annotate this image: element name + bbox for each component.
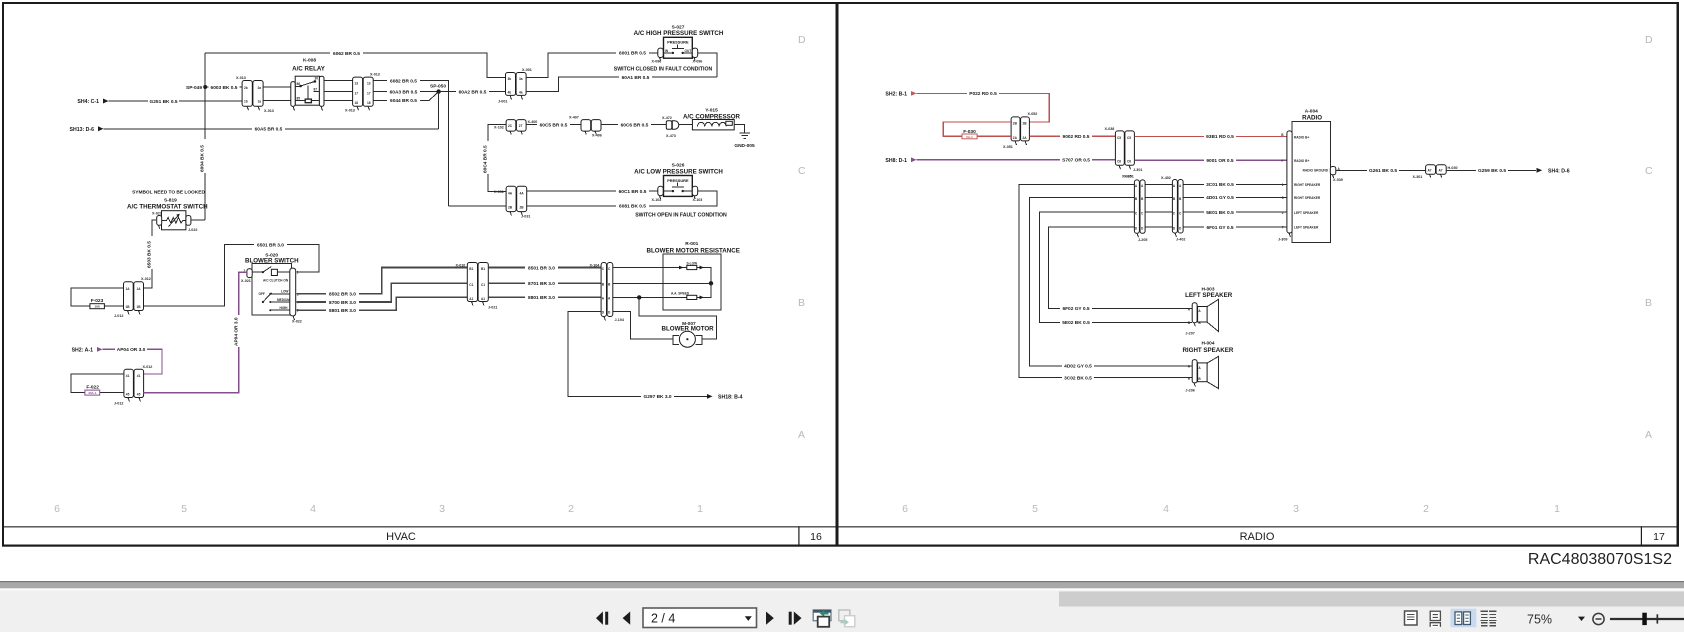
node SH13: D-6: [69, 126, 103, 133]
wire G251 BK 0.5: [109, 98, 243, 104]
svg-text:3a: 3a: [519, 77, 523, 81]
page 17 right border: [1677, 2, 1680, 547]
svg-text:G261 BK 0.5: G261 BK 0.5: [1369, 168, 1397, 174]
svg-text:A/C CLUTCH ON: A/C CLUTCH ON: [263, 279, 289, 283]
next page button: [766, 612, 774, 625]
wire thermostat to SP-049 drop: [191, 219, 206, 221]
svg-text:G297 BK 3.0: G297 BK 3.0: [644, 394, 672, 400]
wire X-013 to relay pin 85: [263, 100, 292, 102]
svg-text:2A: 2A: [1013, 136, 1018, 140]
svg-text:2B: 2B: [1013, 121, 1018, 125]
svg-text:SH4: C-1: SH4: C-1: [77, 99, 99, 105]
svg-text:F-023: F-023: [91, 298, 104, 304]
A/C compressor Y-015: [679, 108, 741, 130]
title bar line: [2, 526, 1679, 527]
svg-text:2: 2: [1423, 503, 1429, 515]
svg-text:60C5 BR 0.5: 60C5 BR 0.5: [540, 122, 568, 128]
secondary scrollbar segment: [1059, 592, 1684, 607]
svg-text:2A: 2A: [1023, 136, 1028, 140]
page number box 2 / 4: [643, 608, 757, 628]
svg-text:J-012: J-012: [114, 402, 123, 406]
A/C high pressure switch S-027: [634, 24, 724, 63]
svg-text:RIGHT SPEAKER: RIGHT SPEAKER: [1182, 347, 1233, 354]
wire X-402 to X-205 row C: [1145, 211, 1172, 213]
wire X-402 to X-205 row A: [1145, 183, 1172, 185]
svg-text:A/C RELAY: A/C RELAY: [292, 66, 326, 73]
wire 3C02 BK 0.5 to right speaker: [1019, 184, 1192, 381]
svg-text:17: 17: [1653, 531, 1665, 543]
junction SP-049: [186, 85, 207, 91]
wire relay 30 out: [324, 80, 353, 82]
ground GND-005: [734, 133, 755, 149]
wire 6003 BK 0.5: [207, 84, 242, 90]
junction SP-050: [430, 83, 446, 94]
svg-text:5E02 BK 0.5: 5E02 BK 0.5: [1062, 320, 1090, 326]
svg-text:60C4 BR 0.5: 60C4 BR 0.5: [482, 145, 488, 173]
svg-text:J-301: J-301: [1133, 168, 1142, 172]
svg-text:SH18: B-4: SH18: B-4: [718, 395, 743, 401]
svg-text:4A: 4A: [520, 192, 525, 196]
svg-text:2C: 2C: [508, 124, 513, 128]
svg-text:LEFT SPEAKER: LEFT SPEAKER: [1185, 292, 1233, 299]
svg-text:6062 BR 0.5: 6062 BR 0.5: [333, 51, 360, 57]
svg-text:X-104: X-104: [590, 264, 601, 268]
svg-text:RADIO B+: RADIO B+: [1294, 136, 1309, 140]
page 16 left border: [2, 2, 4, 547]
svg-text:2B: 2B: [508, 206, 513, 210]
svg-text:X-012: X-012: [141, 277, 151, 281]
svg-text:41: 41: [137, 374, 141, 378]
svg-text:X-051: X-051: [1003, 145, 1013, 149]
last page button: [789, 612, 802, 625]
svg-text:J-402: J-402: [1176, 238, 1185, 242]
svg-text:RAC48038070S1S2: RAC48038070S1S2: [1528, 551, 1672, 568]
svg-text:17: 17: [355, 92, 359, 96]
svg-text:G251 BK 0.5: G251 BK 0.5: [150, 99, 178, 105]
wire 4D02 GY 0.5 to right speaker: [1030, 197, 1193, 369]
svg-text:2B: 2B: [1023, 121, 1028, 125]
svg-text:OUT: OUT: [685, 49, 692, 53]
svg-text:A: A: [1645, 429, 1652, 441]
svg-text:18: 18: [367, 101, 371, 105]
svg-text:8: 8: [1282, 196, 1284, 200]
svg-text:RADIO: RADIO: [1240, 531, 1275, 543]
radio A-004: [1278, 108, 1330, 242]
svg-text:8700 BR 3.0: 8700 BR 3.0: [329, 300, 356, 306]
svg-text:SP-049: SP-049: [186, 85, 202, 91]
svg-text:J-205: J-205: [1138, 238, 1147, 242]
svg-text:6F02 GY 0.5: 6F02 GY 0.5: [1062, 306, 1089, 312]
wire 4D01 GY 0.5: [1183, 195, 1287, 201]
wire G261 BK 0.5: [1336, 168, 1426, 174]
svg-text:X-013: X-013: [370, 72, 380, 76]
svg-text:A/C LOW PRESSURE SWITCH: A/C LOW PRESSURE SWITCH: [634, 169, 723, 176]
wire 60A1 BR 0.5: [526, 74, 717, 91]
svg-text:4b: 4b: [508, 91, 512, 95]
wire 6062 BR 0.5 top feed: [205, 50, 505, 77]
sheet number box 16: [798, 526, 799, 545]
svg-text:SWITCH OPEN IN FAULT CONDITION: SWITCH OPEN IN FAULT CONDITION: [635, 212, 727, 218]
wire J-104 A low with junction: [613, 295, 687, 299]
svg-text:X-103: X-103: [693, 198, 703, 202]
svg-text:X-039: X-039: [1333, 178, 1343, 182]
single page view icon: [1405, 611, 1418, 625]
svg-text:4A: 4A: [508, 192, 513, 196]
svg-text:A/C HIGH PRESSURE SWITCH: A/C HIGH PRESSURE SWITCH: [634, 30, 724, 37]
svg-text:HVAC: HVAC: [386, 531, 416, 543]
svg-text:X-400: X-400: [528, 120, 538, 124]
zoom dropdown caret: [1578, 617, 1585, 621]
svg-text:2 / 4: 2 / 4: [651, 612, 675, 626]
connector X-010 / J-021: [456, 263, 498, 310]
wire AP04 OR 3.0 to blower switch: [144, 272, 247, 393]
svg-text:1A: 1A: [126, 287, 131, 291]
svg-text:X-052: X-052: [1028, 112, 1038, 116]
svg-text:1B: 1B: [137, 305, 142, 309]
svg-text:6004 BK 0.5: 6004 BK 0.5: [200, 145, 206, 172]
svg-text:3b: 3b: [508, 77, 512, 81]
connector X-012 lower: [114, 365, 152, 406]
wire 60C4 riser X-102 to J-031: [482, 125, 506, 192]
next view icon disabled: [839, 610, 855, 627]
blower motor resistance R-001: [647, 241, 740, 310]
svg-text:60A3 BR 0.5: 60A3 BR 0.5: [390, 89, 418, 95]
fuse F-022 loop: [71, 374, 124, 395]
wire X-402 to X-205 row B: [1145, 196, 1172, 198]
svg-text:13: 13: [355, 82, 359, 86]
svg-text:F-022: F-022: [86, 384, 99, 390]
svg-text:C: C: [798, 165, 806, 177]
svg-text:X-021: X-021: [241, 279, 251, 283]
svg-text:MEDIUM: MEDIUM: [277, 298, 290, 302]
svg-text:A7: A7: [1428, 169, 1432, 173]
svg-text:BLOWER MOTOR RESISTANCE: BLOWER MOTOR RESISTANCE: [647, 248, 740, 255]
svg-text:D: D: [1645, 34, 1653, 46]
radio ground pin connector: [1330, 167, 1343, 183]
wire 6F02 GY 0.5 to left speaker: [1049, 227, 1193, 312]
wire 8502 BR 3.0: [296, 268, 467, 298]
connector J-031: [494, 186, 530, 218]
svg-text:C5: C5: [1117, 136, 1121, 140]
svg-text:RIGHT SPEAKER: RIGHT SPEAKER: [1294, 196, 1321, 200]
svg-text:6501 BR 3.0: 6501 BR 3.0: [257, 242, 284, 248]
wire SP-049 vertical 6004 BK 0.5: [200, 53, 208, 220]
wire HP switch return: [698, 53, 717, 77]
svg-text:X-102: X-102: [494, 126, 504, 130]
svg-text:C1: C1: [469, 283, 473, 287]
svg-text:RADIO: RADIO: [1302, 115, 1322, 122]
svg-text:SWITCH CLOSED IN FAULT CONDITI: SWITCH CLOSED IN FAULT CONDITION: [614, 67, 713, 73]
svg-text:X-038: X-038: [1105, 127, 1115, 131]
svg-text:X-301: X-301: [1413, 175, 1423, 179]
wire 6081 BK 0.5: [527, 191, 717, 210]
svg-text:J-022: J-022: [188, 228, 197, 232]
svg-text:5: 5: [1032, 503, 1038, 515]
connector X-407: [569, 116, 602, 138]
svg-text:B1: B1: [481, 267, 485, 271]
wire 60C6 BR 0.5: [601, 122, 666, 128]
svg-text:60A2 BR 0.5: 60A2 BR 0.5: [459, 89, 487, 95]
svg-text:X-013: X-013: [264, 109, 274, 113]
svg-text:J-309: J-309: [1278, 238, 1287, 242]
svg-text:SP-050: SP-050: [430, 83, 446, 89]
first page button: [596, 612, 608, 625]
svg-text:9001 OR 0.5: 9001 OR 0.5: [1206, 158, 1234, 164]
svg-text:LEFT SPEAKER: LEFT SPEAKER: [1294, 226, 1319, 230]
svg-text:B1: B1: [469, 267, 473, 271]
svg-text:A/C THERMOSTAT SWITCH: A/C THERMOSTAT SWITCH: [127, 204, 208, 211]
wire 8501 BR 3.0: [488, 265, 601, 271]
svg-text:18: 18: [355, 101, 359, 105]
connector X-102: [494, 120, 526, 135]
svg-text:1: 1: [1282, 183, 1284, 187]
svg-text:3C01 BK 0.5: 3C01 BK 0.5: [1206, 182, 1234, 188]
svg-text:6F01 GY 0.5: 6F01 GY 0.5: [1206, 225, 1233, 231]
connector X-205: [1122, 175, 1147, 242]
connector X-472 bullet: [662, 116, 679, 138]
svg-text:A1: A1: [469, 297, 473, 301]
svg-text:60A5 BR 0.5: 60A5 BR 0.5: [255, 127, 283, 133]
fuse F-023 loop: [71, 288, 124, 309]
wire 9381 RD 0.5: [1134, 134, 1287, 140]
svg-text:RADIO GROUND: RADIO GROUND: [1303, 169, 1329, 173]
connector X-402: [1161, 176, 1185, 242]
svg-text:X-023: X-023: [152, 212, 162, 216]
svg-text:RIGHT SPEAKER: RIGHT SPEAKER: [1294, 183, 1321, 187]
svg-text:2B: 2B: [520, 206, 525, 210]
svg-text:60C6 BR 0.5: 60C6 BR 0.5: [621, 122, 649, 128]
svg-text:93B1 RD 0.5: 93B1 RD 0.5: [1206, 134, 1234, 140]
svg-text:6: 6: [902, 503, 908, 515]
svg-text:1a: 1a: [258, 100, 262, 104]
wire 5E02 BK 0.5 to left speaker: [1040, 212, 1193, 326]
wire 8700 BR 3.0: [296, 283, 467, 306]
svg-text:13: 13: [367, 82, 371, 86]
wire 6044 BR 0.5: [373, 92, 438, 105]
svg-text:LOW: LOW: [281, 290, 288, 294]
svg-text:SH8: D-1: SH8: D-1: [885, 158, 907, 164]
wire 60C5 BR 0.5: [526, 120, 581, 128]
svg-text:6503 BK 0.5: 6503 BK 0.5: [147, 241, 153, 268]
zoom slider track: [1610, 618, 1684, 620]
svg-text:4: 4: [1163, 503, 1169, 515]
resistor R low: [671, 283, 711, 299]
svg-text:C5: C5: [1127, 136, 1131, 140]
svg-text:X-013: X-013: [236, 76, 246, 80]
svg-text:PRESSURE: PRESSURE: [667, 40, 689, 45]
node SH2: B-1: [885, 91, 916, 98]
svg-text:SH4: D-6: SH4: D-6: [1548, 169, 1570, 175]
wire 60A3 BR 0.5: [373, 89, 438, 95]
svg-text:10A: 10A: [94, 305, 100, 309]
two page view icon selected: [1450, 609, 1476, 628]
wire G297 BK 3.0: [568, 311, 743, 400]
svg-text:75%: 75%: [1527, 613, 1552, 627]
relay K-008: [291, 58, 326, 111]
svg-text:8801 BR 3.0: 8801 BR 3.0: [528, 295, 555, 301]
svg-text:41: 41: [126, 374, 130, 378]
svg-text:S-819: S-819: [164, 197, 177, 203]
svg-text:6001 BR 0.5: 6001 BR 0.5: [619, 51, 646, 57]
wire relay 85 out: [324, 100, 353, 102]
node SH4: C-1: [77, 99, 108, 106]
svg-text:2b: 2b: [244, 86, 248, 90]
svg-text:87: 87: [314, 88, 318, 92]
svg-text:3: 3: [439, 503, 445, 515]
blower switch S-020: [241, 253, 302, 324]
wire J-104 B mid: [613, 282, 711, 284]
svg-text:6044 BR 0.5: 6044 BR 0.5: [390, 98, 417, 104]
svg-text:B: B: [1645, 297, 1652, 309]
svg-text:5: 5: [181, 503, 187, 515]
svg-text:45: 45: [126, 392, 130, 396]
svg-text:4D02 GY 0.5: 4D02 GY 0.5: [1064, 364, 1092, 370]
wire 6082 BR 0.5: [373, 78, 449, 206]
svg-text:3: 3: [1293, 503, 1299, 515]
wire relay 87 out: [324, 91, 353, 93]
svg-text:H-030: H-030: [1448, 166, 1458, 170]
connector X-012 upper: [114, 277, 151, 318]
svg-text:HIGH: HIGH: [280, 306, 289, 310]
wire SP-050 down to 60A5: [437, 92, 439, 129]
svg-text:2a: 2a: [258, 86, 262, 90]
node SH8: D-1: [885, 157, 916, 164]
svg-text:AP04 OR 3.0: AP04 OR 3.0: [117, 347, 146, 353]
wire AP04 OR 3.0 feed: [103, 347, 163, 374]
wire 5E01 BK 0.5: [1183, 210, 1287, 216]
svg-text:8501 BR 3.0: 8501 BR 3.0: [528, 265, 555, 271]
pages bottom border: [2, 545, 1679, 547]
svg-text:SYMBOL NEED TO BE LOOKED: SYMBOL NEED TO BE LOOKED: [132, 190, 205, 196]
svg-text:J-021: J-021: [488, 306, 497, 310]
svg-text:X-010: X-010: [456, 264, 466, 268]
svg-text:AP04 OR 3.0: AP04 OR 3.0: [233, 317, 239, 346]
svg-text:5E01 BK 0.5: 5E01 BK 0.5: [1206, 210, 1234, 216]
blower motor M-007: [662, 321, 715, 347]
wire P022 RD 0.5: [917, 91, 1050, 122]
wire motor return loop: [639, 297, 716, 339]
connector X-052: [1003, 112, 1037, 149]
svg-text:D: D: [798, 34, 806, 46]
svg-text:J-001: J-001: [498, 100, 507, 104]
wire 6503 BK 0.5: [144, 220, 157, 288]
svg-text:3C02 BK 0.5: 3C02 BK 0.5: [1064, 376, 1092, 382]
svg-text:1: 1: [1554, 503, 1560, 515]
wire J-104 D to motor: [613, 311, 673, 339]
svg-text:C: C: [1645, 165, 1653, 177]
svg-text:H-004: H-004: [1201, 340, 1214, 346]
wire X-013 to relay pin 86: [263, 86, 292, 88]
svg-text:X-096: X-096: [652, 60, 662, 64]
svg-text:8801 BR 3.0: 8801 BR 3.0: [329, 308, 356, 314]
svg-text:X-407: X-407: [569, 116, 579, 120]
right speaker H-004: [1182, 340, 1233, 392]
svg-text:X-402: X-402: [1161, 176, 1171, 180]
svg-text:4: 4: [310, 503, 316, 515]
wire compressor to ground: [734, 125, 744, 133]
svg-text:X-031: X-031: [494, 190, 504, 194]
connector X-013 left: [236, 76, 274, 113]
svg-text:X-472: X-472: [662, 116, 672, 120]
wire 60A2 BR 0.5: [439, 89, 506, 95]
svg-text:X-103: X-103: [652, 198, 662, 202]
svg-text:S707 OR 0.5: S707 OR 0.5: [1062, 158, 1090, 164]
svg-text:6081 BK 0.5: 6081 BK 0.5: [619, 204, 646, 210]
wire J-104 C to resistor high: [613, 266, 687, 270]
wire X-402 to X-205 row D: [1145, 226, 1172, 228]
svg-text:2: 2: [568, 503, 574, 515]
svg-text:17: 17: [367, 92, 371, 96]
wire 6F01 GY 0.5: [1183, 224, 1287, 230]
svg-text:6: 6: [54, 503, 60, 515]
A/C thermostat switch S-819: [127, 190, 208, 232]
wire J-031 bottom to SP-050 drop: [449, 205, 506, 207]
svg-text:A-004: A-004: [1305, 108, 1318, 114]
wire 6501 BR 3.0 to blower switch: [144, 242, 320, 306]
svg-text:86: 86: [297, 82, 301, 86]
svg-text:K-008: K-008: [303, 58, 316, 64]
svg-text:GND-005: GND-005: [734, 143, 755, 149]
svg-text:X-305: X-305: [1122, 175, 1132, 179]
svg-text:8701 BR 3.0: 8701 BR 3.0: [528, 281, 555, 287]
svg-text:5A-1: 5A-1: [966, 135, 973, 139]
connector X-013 right: [345, 72, 380, 112]
wire 8801 BR 3.0: [296, 297, 467, 314]
svg-text:2: 2: [1282, 211, 1284, 215]
svg-text:B: B: [798, 297, 805, 309]
svg-text:1: 1: [697, 503, 703, 515]
svg-text:R-001: R-001: [685, 241, 698, 247]
svg-text:16: 16: [810, 531, 822, 543]
svg-text:60A1 BR 0.5: 60A1 BR 0.5: [622, 75, 650, 81]
wire 9002 RD 0.5: [1029, 134, 1115, 140]
wire 8701 BR 3.0: [488, 281, 601, 287]
node SH2: A-1: [72, 347, 103, 354]
svg-text:45: 45: [137, 392, 141, 396]
connector X-104 / J-104: [590, 263, 625, 323]
svg-text:9002 RD 0.5: 9002 RD 0.5: [1063, 134, 1090, 140]
svg-text:J-206: J-206: [1185, 389, 1194, 393]
svg-text:X-473: X-473: [666, 134, 676, 138]
A/C low pressure switch S-026: [634, 163, 723, 202]
svg-text:G259 BK 0.5: G259 BK 0.5: [1478, 168, 1506, 174]
svg-text:J-207: J-207: [1185, 331, 1194, 335]
svg-text:1A: 1A: [137, 287, 142, 291]
page 16 frame top border: [2, 2, 1679, 4]
svg-text:30A-1: 30A-1: [88, 391, 97, 395]
svg-text:J-012: J-012: [114, 314, 123, 318]
svg-text:A7: A7: [1439, 169, 1443, 173]
svg-text:6082 BR 0.5: 6082 BR 0.5: [390, 78, 417, 84]
svg-text:1B: 1B: [126, 305, 131, 309]
wire S707 OR 0.5: [917, 157, 1116, 163]
svg-text:85: 85: [297, 97, 301, 101]
svg-text:6003 BK 0.5: 6003 BK 0.5: [211, 85, 238, 91]
svg-text:A1: A1: [481, 297, 485, 301]
wire 8801 BR 3.0 second: [488, 295, 601, 301]
connector X-301 / H-030: [1413, 165, 1458, 179]
previous page button: [623, 612, 631, 625]
svg-text:8502 BR 3.0: 8502 BR 3.0: [329, 292, 356, 298]
connector X-038: [1105, 127, 1143, 178]
svg-text:C6: C6: [1117, 160, 1121, 164]
zoom slider tick: [1657, 614, 1659, 623]
svg-text:X-096: X-096: [693, 60, 703, 64]
svg-text:30: 30: [315, 77, 319, 81]
svg-text:60C1 BR 0.5: 60C1 BR 0.5: [619, 189, 647, 195]
svg-text:SH2: A-1: SH2: A-1: [72, 348, 94, 354]
toolbar background: [0, 588, 1684, 590]
